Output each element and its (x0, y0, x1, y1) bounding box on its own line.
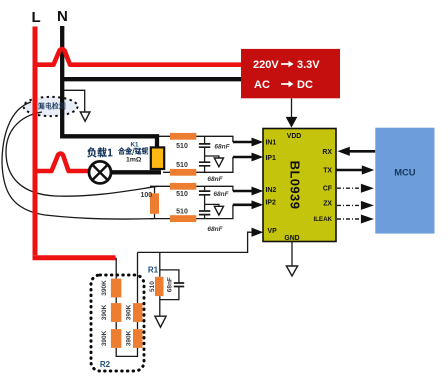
svg-text:BL0939: BL0939 (288, 161, 303, 210)
svg-text:IN1: IN1 (266, 139, 277, 146)
svg-text:390K: 390K (125, 304, 132, 320)
svg-text:390K: 390K (125, 330, 132, 346)
svg-text:510: 510 (176, 162, 188, 169)
svg-text:3.3V: 3.3V (297, 59, 320, 71)
svg-text:510: 510 (149, 281, 156, 292)
svg-text:IN2: IN2 (266, 187, 277, 194)
svg-text:510: 510 (176, 191, 188, 198)
svg-text:MCU: MCU (394, 167, 416, 178)
svg-text:220V: 220V (253, 59, 279, 71)
svg-text:TX: TX (323, 168, 332, 175)
svg-text:68nF: 68nF (166, 277, 173, 292)
svg-text:ZX: ZX (323, 201, 332, 208)
svg-text:390K: 390K (101, 280, 108, 296)
svg-text:R1: R1 (148, 266, 159, 275)
svg-text:K1: K1 (130, 141, 139, 148)
svg-text:RX: RX (322, 149, 332, 156)
svg-text:AC: AC (254, 79, 270, 91)
svg-text:68nF: 68nF (214, 144, 230, 151)
svg-text:L: L (32, 9, 41, 26)
svg-text:390K: 390K (101, 330, 108, 346)
svg-text:1mΩ: 1mΩ (126, 157, 142, 164)
svg-text:68nF: 68nF (213, 191, 229, 198)
svg-text:ILEAK: ILEAK (313, 216, 332, 223)
svg-text:68nF: 68nF (207, 176, 223, 183)
svg-text:510: 510 (176, 208, 188, 215)
svg-text:N: N (57, 8, 68, 25)
svg-text:68nF: 68nF (207, 226, 223, 233)
svg-text:GND: GND (284, 235, 299, 242)
svg-text:VDD: VDD (287, 133, 302, 140)
svg-text:DC: DC (297, 79, 313, 91)
svg-text:IP2: IP2 (266, 200, 277, 207)
svg-text:100: 100 (140, 192, 152, 199)
svg-text:390K: 390K (101, 304, 108, 320)
svg-text:VP: VP (268, 228, 278, 235)
svg-text:IP1: IP1 (266, 155, 277, 162)
svg-text:510: 510 (176, 143, 188, 150)
svg-text:CF: CF (323, 186, 332, 193)
svg-text:R2: R2 (100, 360, 111, 369)
